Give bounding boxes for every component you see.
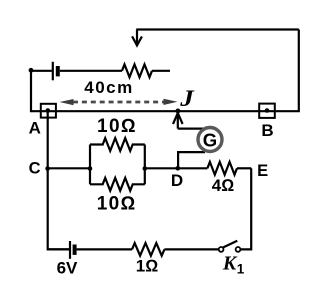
- wire left vertical to A: [31, 71, 40, 111]
- jockey arrowhead: [173, 113, 183, 124]
- parallel block right vertical wire: [144, 145, 146, 185]
- node C dot: [45, 166, 50, 171]
- wire C to parallel block: [48, 167, 90, 169]
- node D dot: [176, 166, 181, 171]
- wire D to 4ohm: [178, 167, 208, 169]
- terminal A square: [41, 104, 56, 118]
- svg-text:1: 1: [237, 262, 245, 277]
- svg-text:10Ω: 10Ω: [97, 194, 137, 215]
- galvanometer G circle: [198, 128, 222, 152]
- battery long plate (bottom battery): [69, 241, 71, 259]
- resistor 4ohm: [207, 162, 237, 175]
- wire jockey to G: [178, 128, 205, 130]
- dimension arrowhead right: [164, 99, 178, 105]
- wire block to D: [145, 167, 178, 169]
- rheostat resistor body: [122, 64, 152, 77]
- wire bottom battery to 1ohm resistor: [77, 248, 132, 250]
- svg-text:6V: 6V: [57, 259, 78, 278]
- junction dot top-left: [29, 68, 34, 73]
- battery short plate (top battery): [56, 66, 60, 76]
- wire G to D: [178, 152, 205, 168]
- junction dot parallel right: [143, 166, 148, 171]
- battery long plate (top battery): [52, 62, 54, 81]
- resistor 10ohm top: [90, 138, 145, 151]
- resistor 1ohm: [132, 243, 164, 256]
- rheostat wiper shaft: [136, 30, 138, 46]
- rheostat wiper arrowhead: [132, 36, 142, 45]
- wire rheostat stub: [152, 70, 170, 72]
- svg-text:E: E: [257, 162, 268, 180]
- jockey arrow shaft: [177, 113, 179, 129]
- node J dot: [176, 109, 181, 114]
- wire junction to battery (top): [31, 70, 52, 72]
- resistor 10ohm bottom: [90, 178, 145, 191]
- battery short plate (bottom battery): [73, 245, 77, 255]
- wire 4ohm to E corner: [237, 167, 251, 169]
- svg-text:J: J: [179, 86, 195, 111]
- svg-text:C: C: [29, 159, 41, 177]
- svg-text:10Ω: 10Ω: [97, 116, 137, 137]
- wire 1ohm to switch: [164, 248, 218, 250]
- svg-text:D: D: [171, 171, 183, 190]
- dimension arrowhead left: [60, 99, 74, 105]
- svg-text:40cm: 40cm: [84, 78, 133, 97]
- wire bottom-left corner to battery: [48, 248, 69, 250]
- svg-text:G: G: [203, 130, 217, 151]
- wire E vertical down to switch: [241, 168, 252, 249]
- svg-text:A: A: [29, 118, 41, 137]
- switch K1 lever: [223, 241, 237, 248]
- wire A down to C: [47, 111, 49, 169]
- terminal A dot: [46, 108, 51, 113]
- svg-text:4Ω: 4Ω: [212, 176, 235, 195]
- wire slide wire A to B: [40, 110, 276, 112]
- switch K1 right contact: [236, 247, 241, 252]
- terminal B dot: [265, 108, 270, 113]
- svg-text:1Ω: 1Ω: [136, 257, 159, 276]
- svg-text:B: B: [261, 121, 273, 140]
- svg-text:K: K: [222, 253, 238, 275]
- wire right vertical down to B: [276, 30, 299, 112]
- wire battery to rheostat: [60, 70, 122, 72]
- terminal B square: [259, 104, 275, 118]
- junction dot parallel left: [88, 166, 93, 171]
- wire top horizontal: [136, 28, 298, 30]
- switch K1 left contact: [219, 247, 224, 252]
- dimension dashed line 40cm: [73, 101, 164, 104]
- parallel block left vertical wire: [89, 145, 91, 185]
- wire C down to bottom branch: [48, 168, 69, 249]
